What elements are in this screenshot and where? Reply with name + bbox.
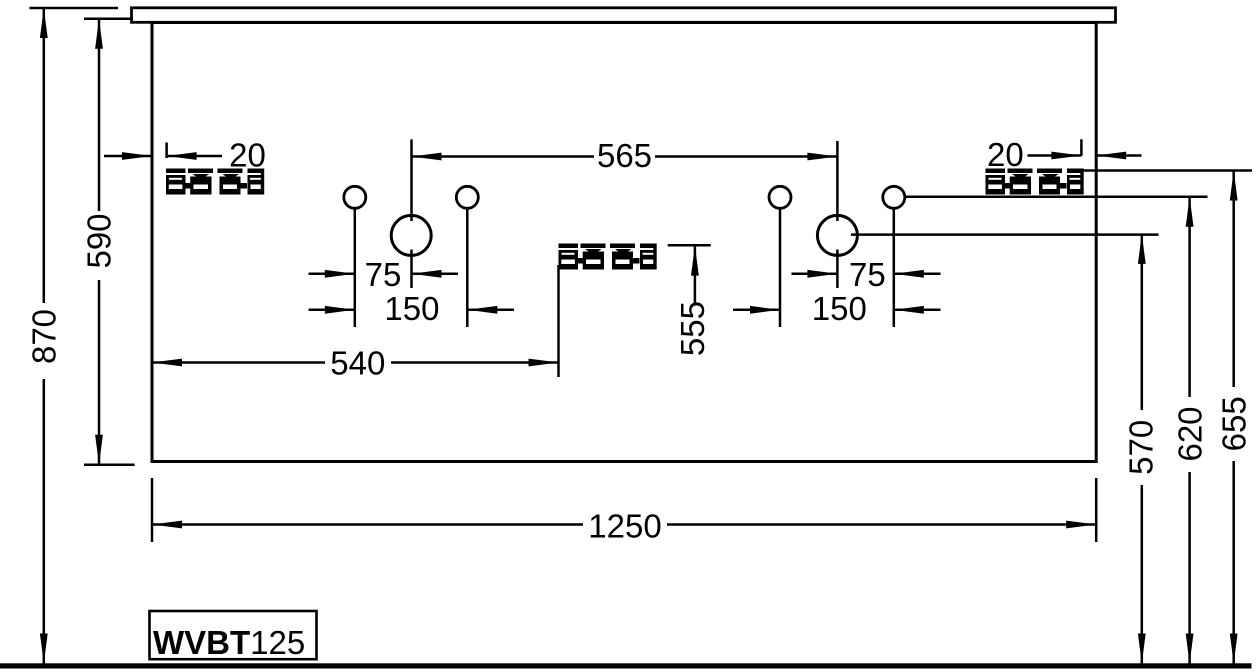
svg-text:1250: 1250 (588, 507, 661, 544)
left large hole circle (391, 215, 431, 255)
svg-text:20: 20 (229, 137, 266, 174)
left 20 dimension (104, 137, 266, 174)
svg-text:150: 150 (384, 290, 439, 327)
right 75 dimension (792, 256, 941, 293)
left small hole circle A (344, 186, 366, 327)
right 150 dimension (733, 290, 941, 327)
dimension 565 (412, 137, 838, 288)
right mounting rail (986, 169, 1084, 195)
left 150 dimension (309, 290, 515, 327)
leader from right rail top to 655 line (1082, 169, 1252, 172)
leader from right small hole to 620 line (905, 195, 1208, 198)
dimension 655 vertical line (1215, 171, 1252, 664)
svg-text:150: 150 (812, 290, 867, 327)
dimension 870 vertical line (25, 8, 118, 664)
dimension 590 vertical line (81, 19, 135, 465)
right small hole circle A (769, 186, 791, 327)
dimension 570 vertical line (1122, 234, 1159, 664)
dimension 540 (152, 265, 559, 381)
countertop (132, 8, 1116, 22)
svg-text:WVBT125: WVBT125 (153, 624, 305, 661)
left small hole circle B (456, 186, 478, 327)
svg-text:870: 870 (25, 309, 62, 364)
svg-text:20: 20 (987, 136, 1024, 173)
right small hole circle B (883, 186, 905, 327)
svg-text:75: 75 (849, 256, 886, 293)
svg-text:570: 570 (1122, 420, 1159, 475)
svg-text:655: 655 (1215, 396, 1252, 451)
svg-text:75: 75 (365, 256, 402, 293)
dimension 620 vertical line (1171, 197, 1208, 664)
svg-text:590: 590 (81, 213, 118, 268)
right large hole circle (817, 215, 857, 255)
center mounting rail (559, 244, 657, 270)
WVBT125 label box (150, 611, 317, 661)
svg-text:555: 555 (674, 301, 711, 356)
left mounting rail (166, 169, 264, 195)
cabinet outline (152, 23, 1096, 462)
svg-text:540: 540 (330, 344, 385, 381)
left 75 dimension (309, 256, 459, 293)
svg-text:565: 565 (597, 137, 652, 174)
floor line (0, 663, 1252, 668)
right 20 dimension (987, 136, 1141, 173)
dimension 1250 (152, 478, 1096, 544)
dimension 555 (668, 245, 711, 356)
leader from right large hole to 570 line (851, 233, 1159, 236)
svg-text:620: 620 (1171, 406, 1208, 461)
